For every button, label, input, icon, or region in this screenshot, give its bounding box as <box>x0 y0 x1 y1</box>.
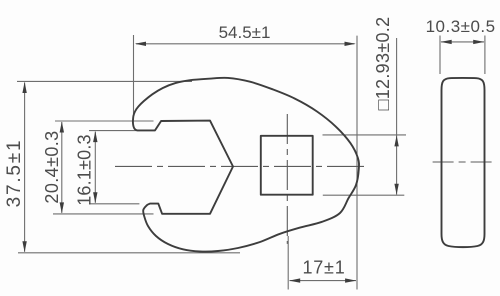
arrow left of 17 <box>289 278 300 282</box>
arrow right of 54.5 <box>345 42 356 46</box>
wire: bottom reference line for 37.5 <box>18 252 240 254</box>
wire: top reference line for 37.5 <box>17 80 192 82</box>
wire: bottom extension for 20.4 <box>53 213 154 215</box>
arrow top of 37.5 <box>22 82 26 93</box>
wire: right extension for 10.3 side view <box>484 36 486 75</box>
wire: dimension line 54.5 <box>136 43 355 45</box>
side view body <box>442 78 485 247</box>
svg-text:54.5±1: 54.5±1 <box>219 23 271 42</box>
svg-text:16.1±0.3: 16.1±0.3 <box>74 134 94 206</box>
svg-text:□12.93±0.2: □12.93±0.2 <box>373 17 393 111</box>
wire: top extension for 16.1 <box>89 130 140 132</box>
arrow up of 12.93 <box>394 135 398 146</box>
node: side view centerline <box>433 161 492 163</box>
svg-text:20.4±0.3: 20.4±0.3 <box>42 130 62 203</box>
wire: dimension line 10.3 <box>441 41 484 43</box>
wire: left extension for 17 dim <box>287 236 289 290</box>
wire: top extension for 20.4 <box>55 120 154 122</box>
arrow right of 17 <box>345 278 356 282</box>
arrow left of 54.5 <box>135 42 146 46</box>
arrow top of 16.1 <box>93 131 97 142</box>
arrow down of 12.93 <box>394 184 398 195</box>
wire: extension line left of 54.5 dim <box>133 35 135 115</box>
wire: extension line right of 54.5/17 dim <box>356 36 358 290</box>
arrow left of 10.3 <box>441 40 452 44</box>
wire: dimension line 12.93 <box>396 38 398 195</box>
wire: top extension for 12.93 square dim <box>323 134 407 136</box>
arrow top of 20.4 <box>60 122 64 133</box>
wrench crowfoot outline <box>133 78 359 252</box>
node: main horizontal centerline <box>115 165 366 167</box>
wire: dimension line 17 <box>290 280 357 282</box>
wire: bottom extension for 16.1 <box>89 203 139 205</box>
wire: dimension line 16.1 <box>94 132 96 203</box>
square drive hole <box>261 136 313 195</box>
svg-text:10.3±0.5: 10.3±0.5 <box>426 17 496 36</box>
node: main vertical centerline <box>286 114 288 244</box>
wire: bottom extension for 12.93 square dim <box>323 194 405 196</box>
svg-text:37.5±1: 37.5±1 <box>4 139 25 208</box>
wire: dimension line 37.5 <box>24 83 26 252</box>
svg-text:17±1: 17±1 <box>302 258 345 278</box>
arrow bottom of 16.1 <box>93 192 97 203</box>
arrow right of 10.3 <box>473 40 484 44</box>
arrow bottom of 37.5 <box>22 241 26 252</box>
wire: dimension line 20.4 <box>61 122 63 213</box>
arrow bottom of 20.4 <box>60 202 64 213</box>
wire: left extension for 10.3 side view <box>439 36 441 75</box>
